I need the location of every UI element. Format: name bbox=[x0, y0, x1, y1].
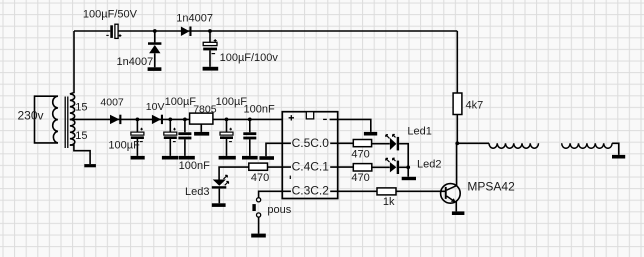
capacitor C1 plus mark bbox=[119, 34, 122, 37]
IC U1 minus pin mark bbox=[323, 118, 327, 120]
wire collector junction to coil L1 bbox=[457, 142, 489, 144]
node junction rail / C3 bbox=[136, 118, 140, 122]
wire R2 to Led1 bbox=[372, 143, 390, 145]
ground under 7805 bbox=[194, 132, 209, 136]
stray tick mark left of C.4 row bbox=[289, 176, 291, 179]
wire Led3 to ground bbox=[218, 189, 220, 204]
wire secondary bottom lead to ground bbox=[70, 145, 90, 164]
IC U1 plus pin mark bbox=[289, 115, 294, 120]
ground under pushbutton bbox=[251, 234, 266, 238]
svg-text:MPSA42: MPSA42 bbox=[467, 180, 515, 194]
wire C2 to ground bbox=[209, 50, 211, 66]
LED Led3 emission arrows bbox=[224, 175, 229, 185]
resistor R4 470 bbox=[353, 164, 372, 171]
svg-text:100nF: 100nF bbox=[244, 104, 275, 116]
capacitor C3 minus mark bbox=[140, 141, 143, 143]
ground under C6 bbox=[219, 156, 236, 160]
LED Led3 cathode bar bbox=[212, 186, 227, 188]
svg-text:7805: 7805 bbox=[193, 104, 217, 116]
wire IC minus pin to ground bbox=[330, 119, 371, 131]
wire left vertical from top rail to transformer secondary bbox=[70, 31, 74, 94]
LED Led2 triangle bbox=[390, 162, 397, 172]
wire R4 to Led2 bbox=[372, 166, 390, 168]
capacitor C2 minus mark bbox=[212, 53, 216, 55]
svg-text:C.5C.0: C.5C.0 bbox=[292, 136, 330, 150]
node junction top rail / shunt diode bbox=[153, 29, 157, 33]
diode D3 4007 triangle bbox=[110, 115, 119, 124]
diode D3 4007 cathode bar bbox=[119, 115, 121, 124]
svg-text:Led1: Led1 bbox=[407, 126, 431, 138]
svg-text:100µF: 100µF bbox=[108, 140, 140, 152]
svg-text:470: 470 bbox=[351, 172, 369, 184]
svg-text:1k: 1k bbox=[383, 196, 395, 208]
svg-text:10V: 10V bbox=[146, 101, 165, 113]
node junction rail / C7 bbox=[248, 118, 252, 122]
node junction top rail / C2 bbox=[208, 29, 212, 33]
svg-text:100nF: 100nF bbox=[179, 160, 210, 172]
ground under Led1/Led2 bbox=[402, 177, 416, 180]
node junction Led cathodes bbox=[406, 165, 410, 169]
ground at L2 bbox=[612, 155, 625, 159]
transistor Q1 collector diagonal bbox=[447, 186, 457, 191]
transformer TR1 primary leads bbox=[35, 96, 58, 143]
svg-text:4k7: 4k7 bbox=[466, 100, 484, 112]
transistor Q1 emitter diagonal bbox=[447, 196, 455, 202]
capacitor C6 100uF top plate (+) bbox=[220, 132, 233, 135]
capacitor C7 100nF stem bbox=[249, 119, 251, 155]
svg-text:1n4007: 1n4007 bbox=[117, 56, 154, 68]
capacitor C4 minus mark bbox=[173, 141, 176, 143]
svg-text:pous: pous bbox=[267, 204, 291, 216]
transistor Q1 base bar bbox=[445, 187, 447, 199]
wire R3 to Led3 bbox=[219, 167, 249, 179]
wire Led1 cathode to common bbox=[399, 144, 408, 177]
inductor L2 bbox=[562, 143, 612, 148]
capacitor C1 100uF/50V left plate bbox=[110, 25, 113, 38]
resistor R3 470 left bbox=[249, 163, 268, 170]
wire C.2 pin to resistor R5 bbox=[330, 190, 377, 192]
svg-text:Led2: Led2 bbox=[417, 158, 441, 170]
capacitor C4 100uF stem bbox=[169, 119, 171, 155]
capacitor C3 100uF stem bbox=[136, 119, 138, 155]
capacitor C1 100uF/50V right plate (+) bbox=[115, 24, 118, 38]
transistor Q1 emitter arrowhead bbox=[451, 198, 456, 202]
LED Led2 emission arrows bbox=[386, 158, 396, 162]
capacitor C6 plus mark bbox=[229, 128, 232, 131]
svg-text:470: 470 bbox=[351, 148, 369, 160]
regulator U2 7805 box bbox=[190, 113, 213, 124]
capacitor C5 100nF top plate bbox=[178, 132, 191, 135]
capacitor C5 100nF stem bbox=[184, 119, 186, 155]
ground at IC minus bbox=[364, 132, 377, 136]
capacitor C7 100nF bottom plate bbox=[243, 137, 256, 140]
svg-text:15: 15 bbox=[75, 130, 87, 142]
wire top rail left segment bbox=[74, 30, 110, 32]
wire shunt diode stem bbox=[154, 31, 156, 42]
ground under C2 bbox=[203, 67, 219, 71]
transistor Q1 circle bbox=[441, 184, 461, 204]
ground under Led3 bbox=[212, 203, 226, 207]
svg-text:C.3C.2: C.3C.2 bbox=[292, 184, 330, 198]
ground under transformer bbox=[84, 164, 96, 167]
diode D2 1n4007 series triangle bbox=[181, 27, 190, 37]
diode D1 1n4007 shunt triangle bbox=[149, 45, 160, 53]
wire C.0 pin to resistor R2 bbox=[330, 142, 353, 144]
wire main rail from transformer center tap to IC bbox=[70, 118, 282, 120]
svg-text:100µF/50V: 100µF/50V bbox=[83, 9, 138, 21]
wire C.3 pin to pushbutton bbox=[259, 191, 291, 197]
ground under C3 bbox=[131, 156, 145, 160]
LED Led1 emission arrows bbox=[386, 135, 396, 139]
svg-text:470: 470 bbox=[251, 172, 269, 184]
ground under C4 bbox=[162, 156, 178, 160]
capacitor C6 minus mark bbox=[229, 141, 232, 143]
pushbutton S1 actuator bbox=[252, 204, 255, 211]
svg-text:230v: 230v bbox=[18, 109, 44, 123]
wire top rail corner down to 4k7 bbox=[456, 31, 458, 93]
wire Led2 cathode to common bbox=[399, 166, 408, 168]
resistor R1 4k7 bbox=[453, 93, 462, 115]
wire C.5 pin to ground bbox=[266, 143, 291, 156]
capacitor C2 plus mark bbox=[214, 39, 217, 42]
transformer TR1 secondary winding upper (15) bbox=[70, 94, 75, 120]
IC U1 box bbox=[282, 112, 337, 199]
wire R5 to transistor base bbox=[396, 190, 445, 192]
node junction rail / C5 bbox=[183, 118, 187, 122]
svg-text:100µF/100v: 100µF/100v bbox=[220, 52, 279, 64]
ground under C7 bbox=[242, 156, 258, 160]
capacitor C3 plus mark bbox=[140, 128, 143, 131]
ground under C5 bbox=[179, 156, 195, 160]
transformer TR1 secondary winding lower (15) bbox=[70, 119, 75, 145]
capacitor C4 100uF top plate (+) bbox=[164, 132, 177, 135]
diode D1 1n4007 shunt cathode bar bbox=[148, 42, 161, 45]
wire C2 stem bbox=[209, 31, 211, 42]
pushbutton S1 top terminal bbox=[257, 198, 261, 202]
inductor L1 bbox=[489, 143, 539, 148]
wire top rail right segment bbox=[118, 30, 457, 32]
wire L2 to ground bbox=[612, 143, 619, 155]
pushbutton S1 bottom terminal bbox=[257, 213, 261, 217]
wire C.1 pin to resistor R4 bbox=[330, 166, 353, 168]
wire 4k7 to collector junction and transistor collector bbox=[456, 115, 459, 187]
IC U1 notch bbox=[306, 112, 313, 119]
svg-text:4007: 4007 bbox=[100, 96, 124, 108]
LED Led3 triangle bbox=[213, 180, 226, 186]
capacitor C4 bottom plate bbox=[164, 136, 177, 139]
ground at C.5 bbox=[259, 156, 274, 160]
resistor R2 470 bbox=[353, 140, 371, 147]
wire C.4 pin to resistor R3 bbox=[268, 166, 292, 168]
capacitor C4 plus mark bbox=[173, 128, 176, 131]
capacitor C7 100nF top plate bbox=[243, 132, 256, 135]
svg-text:15: 15 bbox=[75, 102, 87, 114]
capacitor C3 bottom plate bbox=[131, 136, 144, 139]
diode D4 10V cathode bar bbox=[161, 115, 163, 124]
capacitor C5 100nF bottom plate bbox=[178, 137, 191, 140]
wire emitter to ground bbox=[455, 202, 457, 212]
svg-text:1n4007: 1n4007 bbox=[176, 13, 213, 25]
diode D2 1n4007 series cathode bar bbox=[189, 27, 191, 37]
ground under emitter bbox=[452, 211, 465, 215]
LED Led1 cathode bar bbox=[397, 137, 399, 151]
capacitor C2 100uF/100v top plate (+) bbox=[203, 42, 217, 45]
transformer TR1 primary winding bbox=[53, 96, 58, 143]
resistor R5 1k bbox=[377, 188, 396, 195]
wire 7805 ground stem bbox=[200, 124, 202, 132]
transformer TR1 core bbox=[65, 97, 68, 149]
svg-text:100µF: 100µF bbox=[165, 96, 197, 108]
LED Led1 triangle bbox=[390, 138, 397, 150]
node junction collector / coil bbox=[455, 141, 459, 145]
SECTION:TRANSFORMER bbox=[35, 94, 91, 164]
LED Led2 cathode bar bbox=[397, 161, 399, 174]
wire shunt diode to ground bbox=[154, 53, 156, 67]
capacitor C6 100uF stem bbox=[226, 119, 228, 155]
node junction rail / C4 bbox=[168, 118, 172, 122]
ground under shunt diode bbox=[148, 67, 162, 71]
capacitor C2 bottom plate bbox=[203, 48, 217, 51]
node junction rail / C6 bbox=[225, 118, 229, 122]
capacitor C6 bottom plate bbox=[220, 136, 233, 139]
wire pushbutton to ground bbox=[258, 217, 260, 234]
svg-text:C.4C.1: C.4C.1 bbox=[292, 160, 330, 174]
diode D4 10V triangle bbox=[152, 115, 161, 124]
capacitor C1 minus mark bbox=[106, 34, 108, 36]
svg-text:Led3: Led3 bbox=[185, 186, 209, 198]
capacitor C3 100uF top plate (+) bbox=[131, 132, 144, 135]
